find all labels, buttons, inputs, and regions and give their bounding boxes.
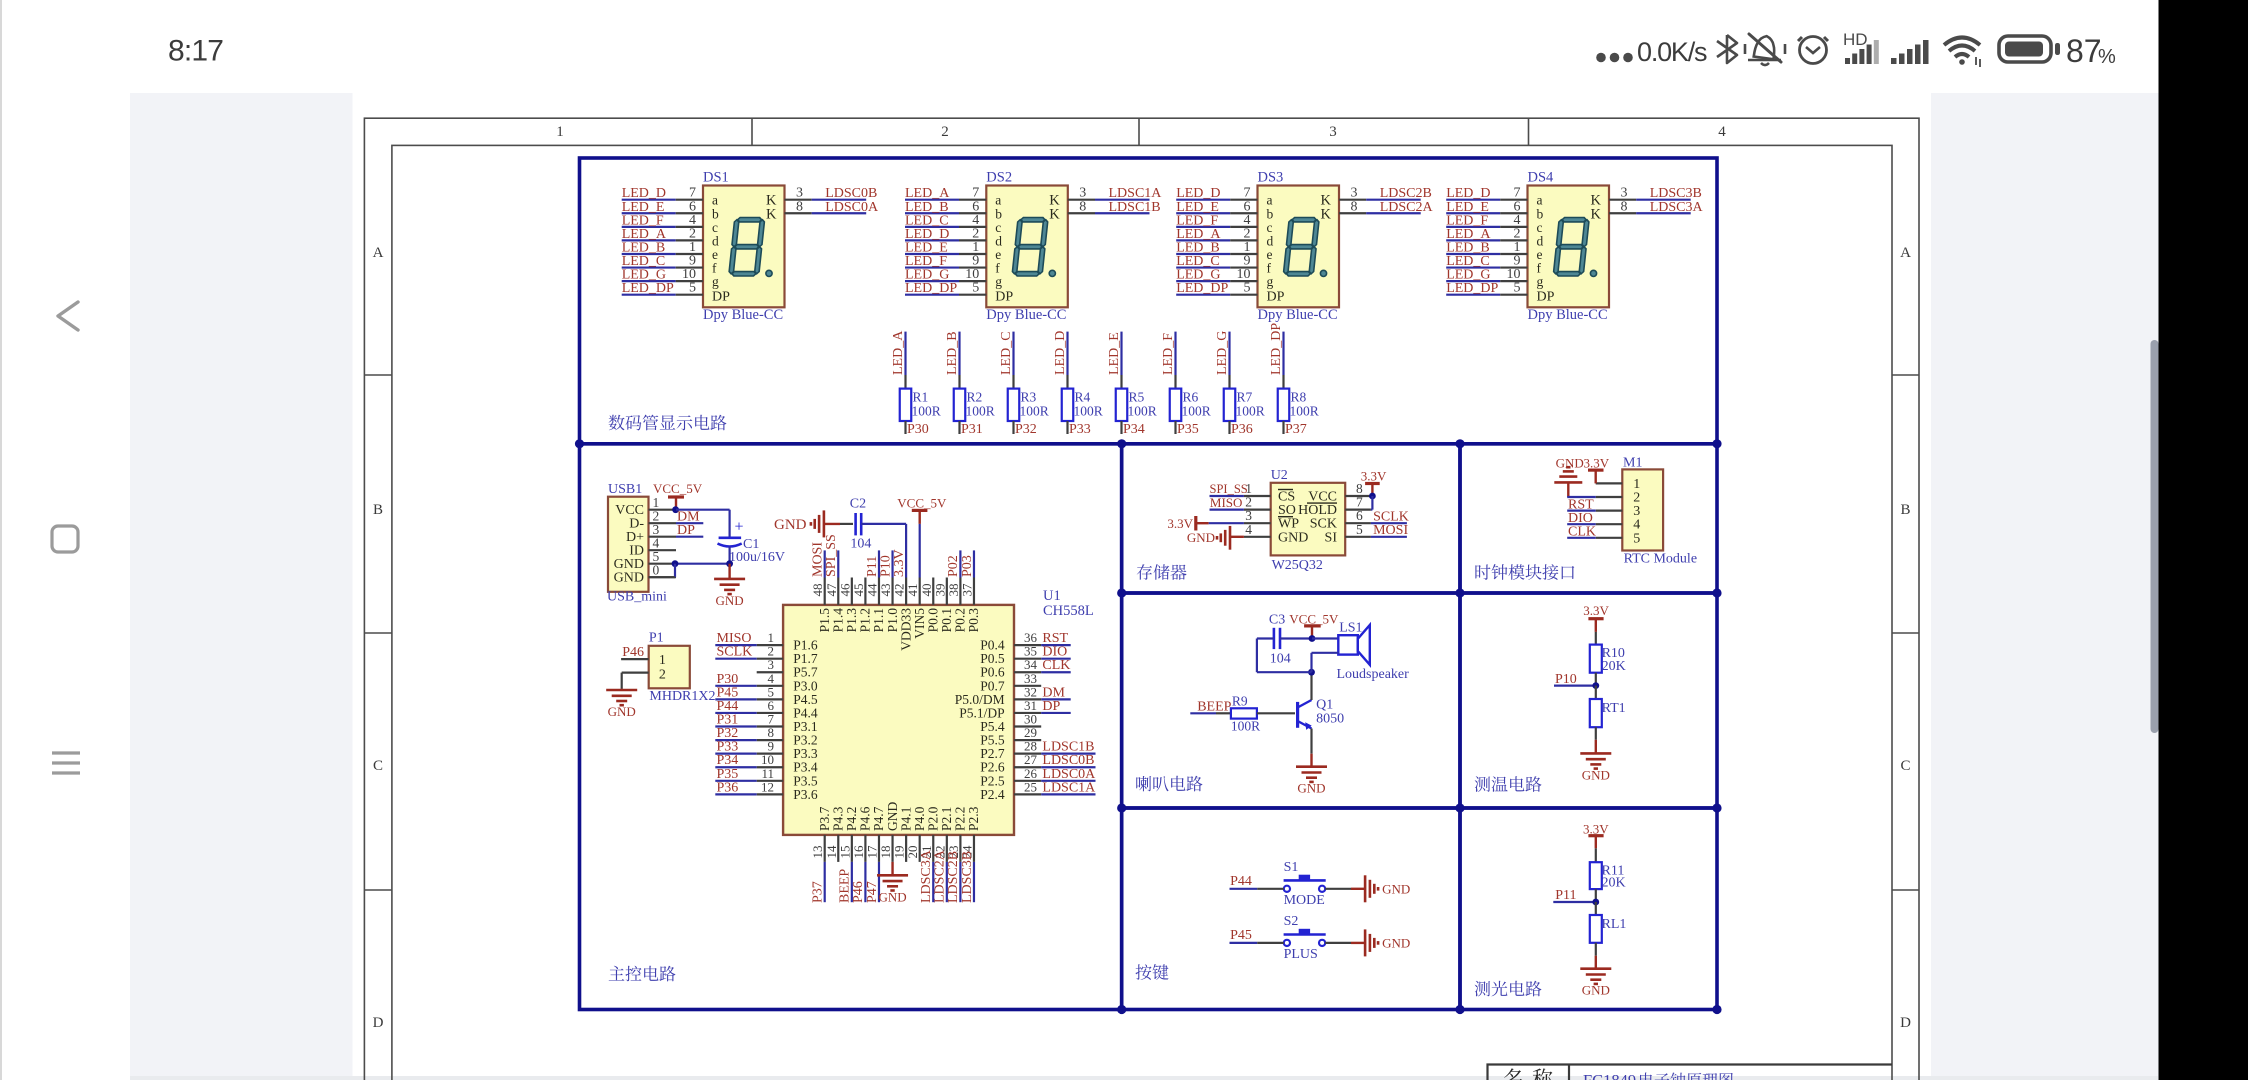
svg-text:P2.3: P2.3 (966, 806, 981, 831)
svg-text:M1: M1 (1623, 456, 1642, 471)
svg-text:12: 12 (761, 779, 774, 794)
net SPI_SS (1210, 482, 1248, 496)
title speaker (1136, 776, 1202, 792)
wire net LDSC1A to DS2 pin 3 (1068, 186, 1162, 202)
svg-text:C: C (1900, 758, 1910, 774)
svg-text:P45: P45 (1230, 928, 1252, 943)
U1 top pin 39 P0.1 (932, 578, 954, 633)
svg-text:DS2: DS2 (986, 170, 1012, 186)
wire net LED_G to DS4 pin 10 (1446, 267, 1527, 283)
svg-text:VCC_5V: VCC_5V (653, 481, 703, 496)
bottom strip (130, 1076, 2158, 1080)
frame column and row labels (373, 124, 1912, 1031)
title light (1475, 981, 1542, 997)
U1 top pin 47 P1.4 (824, 534, 846, 632)
U1 right pin 27 P2.6 (980, 752, 1095, 775)
power 3.3V at U2 WP (1167, 516, 1244, 531)
svg-text:5: 5 (1356, 522, 1363, 537)
svg-text:100R: 100R (1290, 404, 1319, 419)
svg-text:100R: 100R (1020, 404, 1049, 419)
U1 right pin 28 P2.7 (980, 739, 1095, 762)
net MISO (1210, 495, 1244, 510)
wire net LED_A to DS3 pin 2 (1176, 226, 1257, 242)
U1 top pin 37 P0.3 (959, 550, 981, 632)
svg-text:P35: P35 (1177, 422, 1199, 437)
section box: light sensor (1460, 808, 1717, 1010)
U1 bottom pin 19 P4.1 (892, 807, 914, 862)
wire C3 loop (1257, 635, 1338, 672)
svg-text:MHDR1X2: MHDR1X2 (649, 689, 715, 704)
U1 bottom pin 21 P2.0 (919, 806, 941, 903)
U2 left pin 3 WP (1244, 508, 1299, 532)
svg-text:GND: GND (716, 593, 744, 608)
nav menu (52, 753, 80, 773)
svg-text:8: 8 (1351, 199, 1358, 214)
svg-text:P11: P11 (1555, 888, 1576, 903)
wire net LDSC2A to DS3 pin 8 (1339, 199, 1433, 215)
svg-text:2: 2 (941, 124, 949, 140)
U1 right pin 26 P2.5 (980, 766, 1096, 789)
resistor R1 100R with net LED (891, 330, 941, 437)
svg-text:LED_E: LED_E (1107, 332, 1122, 375)
display DS2 (986, 170, 1068, 324)
svg-text:D: D (373, 1015, 384, 1031)
svg-text:LDSC0A: LDSC0A (825, 200, 879, 215)
svg-text:g: g (1537, 274, 1544, 289)
svg-text:Dpy Blue-CC: Dpy Blue-CC (1528, 307, 1608, 323)
connector USB1 USB_mini (607, 482, 676, 605)
U1 left pin 1 P1.6 (715, 630, 818, 653)
U1 bottom pin 24 P2.3 (959, 806, 981, 903)
svg-text:K: K (1321, 206, 1332, 222)
svg-text:P0.3: P0.3 (966, 608, 981, 633)
wire net LED_C to DS2 pin 4 (905, 213, 986, 229)
svg-text:Loudspeaker: Loudspeaker (1337, 667, 1410, 682)
svg-text:LED_DP: LED_DP (1446, 281, 1498, 296)
section box: display circuit (580, 158, 1718, 1010)
U1 left pin 10 P3.4 (715, 752, 818, 775)
U1 top pin 43 P1.0 (878, 550, 900, 632)
U1 right pin 25 P2.4 (980, 779, 1096, 802)
wire net LED_D to DS2 pin 2 (905, 226, 986, 242)
power VCC_5V at speaker (1289, 612, 1339, 639)
U1 right pin 30 P5.4 (980, 712, 1041, 735)
title memory (1137, 564, 1187, 580)
U1 right pin 36 P0.4 (980, 630, 1070, 653)
wire net LED_C to DS4 pin 9 (1446, 254, 1527, 270)
svg-text:P3.6: P3.6 (793, 787, 818, 802)
photoresistor RL1 (1590, 902, 1627, 969)
nav back chevron (58, 302, 78, 330)
svg-text:Q1: Q1 (1316, 698, 1333, 713)
wire emitter down to GND (1310, 729, 1312, 767)
wire net LED_G to DS1 pin 10 (622, 267, 703, 283)
U1 bottom pin 20 P4.0 (905, 806, 927, 862)
svg-text:R6: R6 (1183, 390, 1199, 405)
svg-text:1: 1 (659, 653, 666, 668)
svg-text:USB_mini: USB_mini (607, 590, 667, 605)
ground GND at RL1 (1580, 969, 1611, 998)
U1 left pin 7 P3.1 (715, 712, 817, 735)
wire net LED_C to DS3 pin 9 (1176, 254, 1257, 270)
scrollbar (2151, 340, 2159, 733)
svg-text:SCLK: SCLK (717, 645, 753, 660)
svg-text:P31: P31 (961, 422, 983, 437)
svg-text:LED_B: LED_B (945, 331, 960, 375)
wire M1 row 2 (1567, 496, 1596, 498)
svg-text:3.3V: 3.3V (892, 549, 907, 577)
svg-text:87: 87 (2066, 33, 2102, 69)
svg-text:K: K (766, 206, 777, 222)
svg-text:R7: R7 (1237, 390, 1253, 405)
U1 top pin 45 P1.2 (851, 578, 873, 633)
svg-text:P36: P36 (1231, 422, 1253, 437)
svg-text:K: K (1591, 206, 1602, 222)
svg-text:DP: DP (995, 290, 1013, 305)
svg-text:GND: GND (1582, 983, 1610, 998)
svg-text:GND: GND (878, 889, 906, 904)
section box: memory (1122, 444, 1460, 593)
svg-text:DS3: DS3 (1258, 170, 1284, 186)
svg-text:LED_DP: LED_DP (1176, 281, 1228, 296)
net P11 (1553, 888, 1599, 905)
ground GND at M1 (1554, 456, 1583, 498)
svg-text:LED_C: LED_C (999, 331, 1014, 375)
power 3.3V at R10 (1583, 603, 1609, 645)
wire net LED_DP to DS1 pin 5 (622, 281, 703, 297)
svg-text:P36: P36 (717, 780, 739, 795)
svg-text:LED_D: LED_D (1053, 331, 1068, 375)
svg-text:R5: R5 (1129, 390, 1145, 405)
svg-text:LED_DP: LED_DP (1269, 323, 1284, 375)
ground GND at U1 pin 18 (877, 862, 908, 904)
svg-text:D: D (1900, 1015, 1911, 1031)
U2 right pin 6 SCK (1310, 508, 1371, 532)
svg-text:LED_F: LED_F (1161, 333, 1176, 375)
svg-text:U2: U2 (1271, 468, 1288, 483)
U1 top pin 44 P1.1 (864, 550, 886, 632)
svg-text:5: 5 (1514, 281, 1521, 296)
title display circuit (609, 415, 727, 431)
svg-text:Dpy Blue-CC: Dpy Blue-CC (986, 307, 1066, 323)
net MOSI (1371, 523, 1409, 538)
U1 top pin 41 VIN5 (905, 578, 927, 639)
net P45 at S2 (1230, 928, 1284, 943)
svg-text:100R: 100R (966, 404, 995, 419)
title keys (1136, 964, 1169, 980)
svg-text:GND: GND (1382, 881, 1410, 896)
svg-text:LED_G: LED_G (1215, 331, 1230, 375)
capacitor C2 104 (840, 497, 871, 552)
svg-text:GND: GND (1278, 530, 1308, 545)
net P44 at S1 (1230, 874, 1284, 889)
wire net LED_D to DS4 pin 7 (1446, 186, 1527, 202)
section box: MCU (580, 444, 1122, 1010)
wire net LED_DP to DS4 pin 5 (1446, 281, 1527, 297)
wire net LED_B to DS2 pin 6 (905, 199, 986, 215)
section junction dots (575, 439, 1722, 1014)
svg-text:P33: P33 (1069, 422, 1091, 437)
svg-text:100R: 100R (1074, 404, 1103, 419)
wire net LED_D to DS3 pin 7 (1176, 186, 1257, 202)
svg-text:3.3V: 3.3V (1583, 603, 1609, 618)
IC U1 CH558L (783, 588, 1094, 835)
svg-text:0: 0 (653, 563, 660, 578)
svg-text:R4: R4 (1075, 390, 1091, 405)
U1 bottom pin 17 P4.7 (864, 806, 886, 903)
svg-text:GND: GND (1582, 767, 1610, 782)
svg-text:8050: 8050 (1316, 712, 1344, 727)
svg-text:GND: GND (608, 704, 636, 719)
svg-text:DP: DP (1537, 290, 1555, 305)
rotated net 3.3V at U1 pin42 (892, 549, 907, 577)
svg-text:104: 104 (1270, 652, 1291, 667)
ground GND at P1 (606, 673, 637, 719)
svg-text:100R: 100R (1236, 404, 1265, 419)
wire M1 row 5 CLK (1567, 525, 1596, 540)
resistor R7 100R with net LED (1215, 331, 1265, 437)
svg-text:DS1: DS1 (703, 170, 729, 186)
svg-text:+: + (734, 519, 743, 536)
svg-text:DP: DP (712, 290, 730, 305)
svg-text:RT1: RT1 (1602, 701, 1626, 716)
net P10 (1554, 672, 1599, 689)
svg-text:CLK: CLK (1568, 525, 1596, 540)
power 3.3V at U2 VCC (1361, 469, 1387, 510)
loudspeaker LS1 (1337, 621, 1410, 683)
U1 top pin 42 VDD33 (892, 578, 914, 651)
power VCC_5V at USB1 (653, 481, 703, 510)
svg-text:BEEP: BEEP (1197, 700, 1231, 715)
svg-text:MOSI: MOSI (1373, 523, 1408, 538)
U1 bottom pin 23 P2.2 (946, 807, 968, 903)
svg-text:4: 4 (1718, 124, 1726, 140)
IC U2 W25Q32 (1271, 468, 1346, 573)
svg-text:SPI_SS: SPI_SS (824, 534, 839, 577)
net BEEP (1190, 700, 1231, 715)
wire net LED_E to DS2 pin 1 (905, 240, 986, 256)
svg-text:5: 5 (1633, 531, 1640, 546)
svg-text:S2: S2 (1284, 914, 1299, 929)
resistor R9 100R (1231, 694, 1295, 734)
U1 bottom pin 18 GND (878, 802, 900, 862)
svg-text:GND: GND (1382, 935, 1410, 950)
svg-text:B: B (373, 502, 383, 518)
U1 right pin 32 P5.0/DM (955, 684, 1071, 707)
svg-text:3.3V: 3.3V (1584, 456, 1610, 471)
svg-text:DP: DP (677, 523, 695, 538)
svg-text:USB1: USB1 (608, 482, 642, 497)
svg-text:P03: P03 (960, 555, 975, 577)
title temperature (1475, 776, 1542, 792)
wire net LED_E to DS4 pin 6 (1446, 199, 1527, 215)
wire net LDSC0B to DS1 pin 3 (785, 186, 878, 202)
wire net LED_B to DS4 pin 1 (1446, 240, 1527, 256)
svg-text:DP: DP (1042, 699, 1060, 714)
sheet outer frame (364, 118, 1919, 1080)
wire net LED_DP to DS2 pin 5 (905, 281, 986, 297)
title MCU (609, 966, 676, 982)
wire speaker lower pin (1312, 653, 1339, 672)
resistor R4 100R with net LED (1053, 331, 1103, 437)
wire net LED_F to DS3 pin 4 (1176, 213, 1257, 229)
svg-text:8: 8 (796, 199, 803, 214)
U1 left pin 6 P4.4 (715, 698, 818, 721)
svg-text:DP: DP (1267, 290, 1285, 305)
U1 right pin 33 P0.7 (980, 671, 1041, 694)
svg-text:LDSC3A: LDSC3A (1650, 200, 1704, 215)
svg-text:GND: GND (1297, 781, 1325, 796)
U2 left pin 1 CS (1244, 481, 1295, 505)
left panel (130, 93, 353, 1080)
resistor R3 100R with net LED (999, 331, 1049, 437)
svg-text:100R: 100R (912, 404, 941, 419)
svg-text:R9: R9 (1232, 694, 1248, 709)
svg-text:3: 3 (1329, 124, 1337, 140)
section box: RTC interface (1460, 444, 1717, 593)
U1 right pin 29 P5.5 (980, 725, 1041, 748)
status bar right icons (1596, 30, 2116, 69)
ground GND at RT1 (1580, 753, 1611, 782)
svg-text:2: 2 (659, 667, 666, 682)
wire net LDSC3A to DS4 pin 8 (1609, 199, 1703, 215)
svg-text:3.3V: 3.3V (1167, 516, 1193, 531)
ground GND below C1 (714, 564, 745, 608)
wire net LED_C to DS1 pin 9 (622, 254, 703, 270)
svg-text:B: B (1900, 502, 1910, 518)
svg-text:25: 25 (1024, 779, 1037, 794)
wire M1 row 3 RST (1567, 497, 1596, 512)
U1 bottom pin 22 P2.1 (932, 807, 954, 903)
svg-text:GND: GND (774, 517, 807, 533)
wire net LED_A to DS4 pin 2 (1446, 226, 1527, 242)
wire net LDSC1B to DS2 pin 8 (1068, 199, 1161, 215)
U2 right pin 8 VCC (1308, 481, 1371, 505)
switch S2 PLUS (1284, 914, 1326, 962)
black bar right (2159, 0, 2248, 1080)
svg-text:RL1: RL1 (1602, 917, 1627, 932)
wire net LDSC0A to DS1 pin 8 (785, 199, 879, 215)
svg-text:A: A (1900, 245, 1911, 261)
wire net LED_F to DS2 pin 9 (905, 254, 986, 270)
wire VCC to C1 (672, 506, 729, 537)
svg-text:P1: P1 (649, 631, 664, 646)
svg-text:GND: GND (614, 571, 644, 586)
section box: keys (1122, 808, 1460, 1010)
net SCLK (1371, 510, 1409, 525)
svg-text:U1: U1 (1043, 588, 1061, 604)
U2 right pin 7 HOLD (1298, 495, 1371, 518)
U1 bottom pin 14 P4.3 (824, 806, 846, 862)
svg-text:C3: C3 (1269, 613, 1285, 628)
svg-text:LDSC1A: LDSC1A (1042, 780, 1096, 795)
U1 left pin 4 P3.0 (715, 671, 818, 694)
svg-text:CH558L: CH558L (1043, 603, 1094, 619)
U2 left pin 4 GND (1244, 522, 1308, 546)
svg-text:LS1: LS1 (1339, 621, 1362, 636)
ground GND at U2 pin4 (1187, 526, 1244, 550)
display DS1 (703, 170, 785, 324)
switch S1 MODE (1284, 860, 1326, 908)
svg-text:PLUS: PLUS (1284, 947, 1318, 962)
wire net LED_F to DS4 pin 4 (1446, 213, 1527, 229)
title RTC (1475, 564, 1574, 580)
svg-text:CLK: CLK (1042, 658, 1070, 673)
svg-text:20K: 20K (1602, 875, 1626, 890)
svg-text:P32: P32 (1015, 422, 1037, 437)
capacitor C1 100u/16V (718, 519, 786, 566)
svg-text:8:17: 8:17 (168, 35, 223, 68)
section box: speaker (1122, 593, 1460, 808)
U1 bottom pin 13 P3.7 (810, 806, 832, 903)
svg-text:P37: P37 (1285, 422, 1307, 437)
resistor R11 20K (1590, 862, 1626, 902)
wire net LED_A to DS1 pin 2 (622, 226, 703, 242)
wire net LED_B to DS3 pin 1 (1176, 240, 1257, 256)
svg-text:P37: P37 (811, 881, 826, 903)
ground GND at S2 (1325, 929, 1410, 956)
ground GND at S1 (1325, 875, 1410, 902)
U1 top pin 38 P0.2 (946, 550, 968, 632)
net P46 at P1 (622, 645, 644, 660)
U2 left pin 2 SO (1244, 495, 1296, 518)
resistor R8 100R with net LED (1269, 323, 1319, 437)
svg-text:FC1849: FC1849 (1583, 1071, 1636, 1080)
U1 bottom pin 16 P4.6 (851, 806, 873, 903)
svg-text:100R: 100R (1182, 404, 1211, 419)
U1 right pin 31 P5.1/DP (959, 698, 1071, 721)
svg-text:C: C (373, 758, 383, 774)
svg-text:P2.4: P2.4 (980, 787, 1005, 802)
wire net LED_G to DS3 pin 10 (1176, 267, 1257, 283)
U1 left pin 2 P1.7 (715, 644, 818, 667)
svg-text:P46: P46 (622, 645, 644, 660)
svg-text:100R: 100R (1128, 404, 1157, 419)
svg-text:SI: SI (1325, 530, 1338, 545)
svg-text:LDSC2A: LDSC2A (1380, 200, 1434, 215)
svg-text:R8: R8 (1291, 390, 1307, 405)
wire USB GND rows (649, 560, 733, 577)
svg-text:RTC Module: RTC Module (1624, 552, 1697, 567)
display DS4 (1528, 170, 1610, 324)
connector M1 RTC Module (1596, 456, 1697, 567)
svg-text:R2: R2 (967, 390, 983, 405)
thermistor RT1 (1590, 686, 1626, 754)
wire net LED_G to DS2 pin 10 (905, 267, 986, 283)
wire M1 row 4 DIO (1567, 511, 1596, 526)
svg-text:100R: 100R (1231, 719, 1260, 734)
title block (1488, 1065, 1893, 1080)
svg-text:LDSC3B: LDSC3B (960, 851, 975, 903)
power VCC_5V at U1 (897, 496, 947, 578)
svg-text:K: K (1049, 206, 1060, 222)
nav square (52, 526, 78, 552)
wire net LDSC3B to DS4 pin 3 (1609, 186, 1702, 202)
net DP (676, 523, 703, 538)
svg-text:HD: HD (1843, 30, 1868, 49)
svg-text:104: 104 (850, 537, 871, 552)
svg-text:8: 8 (1079, 199, 1086, 214)
U1 right pin 35 P0.5 (980, 644, 1070, 667)
svg-text:GND: GND (1187, 530, 1215, 545)
U1 bottom pin 15 P4.2 (837, 807, 859, 903)
svg-text:g: g (1267, 274, 1274, 289)
right panel (1931, 93, 2159, 1080)
wire net LDSC2B to DS3 pin 3 (1339, 186, 1432, 202)
U1 left pin 11 P3.5 (715, 766, 818, 789)
wire net LED_F to DS1 pin 4 (622, 213, 703, 229)
svg-text:W25Q32: W25Q32 (1272, 558, 1323, 573)
